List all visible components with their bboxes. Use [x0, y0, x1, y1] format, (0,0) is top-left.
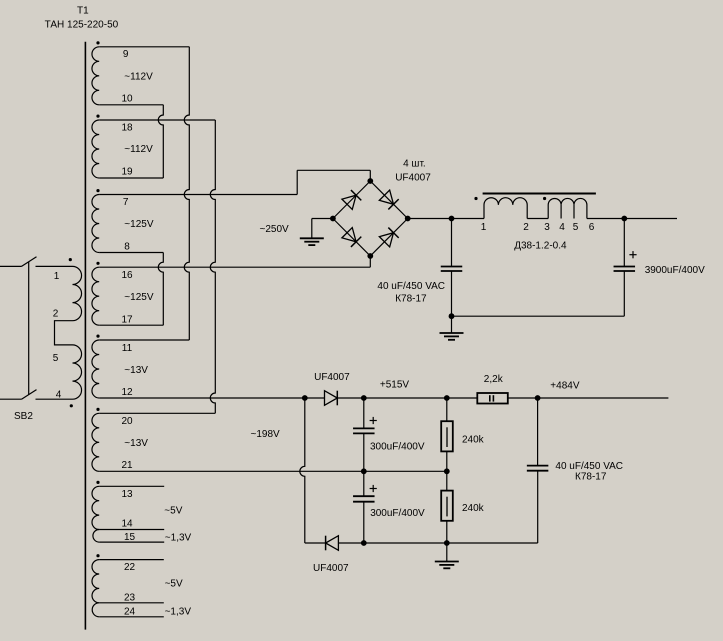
svg-text:2: 2	[523, 222, 529, 233]
svg-text:18: 18	[121, 123, 133, 134]
svg-text:7: 7	[123, 197, 129, 208]
svg-text:~112V: ~112V	[124, 72, 153, 83]
svg-text:~250V: ~250V	[260, 224, 290, 235]
svg-text:Д38-1.2-0.4: Д38-1.2-0.4	[514, 241, 567, 252]
svg-text:~1,3V: ~1,3V	[165, 533, 192, 544]
svg-text:300uF/400V: 300uF/400V	[370, 442, 425, 453]
svg-text:3: 3	[544, 222, 550, 233]
svg-text:240k: 240k	[462, 435, 485, 446]
svg-text:+484V: +484V	[550, 381, 580, 392]
svg-text:5: 5	[573, 222, 579, 233]
svg-text:20: 20	[121, 416, 133, 427]
svg-text:4: 4	[559, 222, 565, 233]
svg-text:40 uF/450 VAC: 40 uF/450 VAC	[377, 281, 445, 292]
svg-text:14: 14	[121, 519, 133, 530]
svg-text:24: 24	[124, 607, 136, 618]
svg-text:22: 22	[124, 562, 136, 573]
svg-text:15: 15	[124, 532, 136, 543]
svg-text:~1,3V: ~1,3V	[165, 607, 192, 618]
svg-text:1: 1	[481, 222, 487, 233]
svg-text:~13V: ~13V	[124, 438, 148, 449]
svg-text:UF4007: UF4007	[314, 372, 350, 383]
svg-text:SB2: SB2	[14, 411, 33, 422]
svg-text:23: 23	[124, 593, 136, 604]
svg-text:~125V: ~125V	[124, 292, 154, 303]
svg-text:UF4007: UF4007	[395, 173, 431, 184]
svg-text:6: 6	[589, 222, 595, 233]
svg-text:11: 11	[122, 343, 133, 354]
svg-text:16: 16	[121, 270, 133, 281]
svg-text:+515V: +515V	[380, 380, 410, 391]
svg-text:13: 13	[121, 489, 133, 500]
svg-text:~125V: ~125V	[124, 219, 154, 230]
svg-text:12: 12	[121, 387, 133, 398]
svg-text:~112V: ~112V	[124, 144, 153, 155]
svg-text:~5V: ~5V	[164, 505, 182, 516]
svg-text:17: 17	[121, 315, 133, 326]
svg-text:300uF/400V: 300uF/400V	[370, 508, 425, 519]
svg-text:5: 5	[53, 353, 59, 364]
svg-text:UF4007: UF4007	[313, 563, 349, 574]
svg-text:4 шт.: 4 шт.	[403, 159, 426, 170]
svg-text:10: 10	[121, 94, 133, 105]
svg-text:2: 2	[53, 309, 59, 320]
svg-text:21: 21	[121, 460, 133, 471]
svg-text:К78-17: К78-17	[395, 294, 427, 305]
svg-text:ТАН 125-220-50: ТАН 125-220-50	[45, 19, 119, 30]
svg-text:~13V: ~13V	[124, 365, 148, 376]
svg-text:4: 4	[56, 390, 62, 401]
svg-text:К78-17: К78-17	[575, 472, 607, 483]
svg-text:~5V: ~5V	[165, 579, 183, 590]
svg-text:19: 19	[121, 167, 133, 178]
svg-text:1: 1	[54, 271, 60, 282]
svg-text:Т1: Т1	[77, 6, 89, 17]
svg-text:240k: 240k	[462, 503, 485, 514]
svg-text:3900uF/400V: 3900uF/400V	[645, 265, 705, 276]
svg-text:2,2k: 2,2k	[484, 374, 504, 385]
svg-text:40 uF/450 VAC: 40 uF/450 VAC	[555, 461, 623, 472]
svg-text:8: 8	[124, 242, 130, 253]
svg-text:9: 9	[123, 49, 129, 60]
svg-text:~198V: ~198V	[251, 429, 281, 440]
